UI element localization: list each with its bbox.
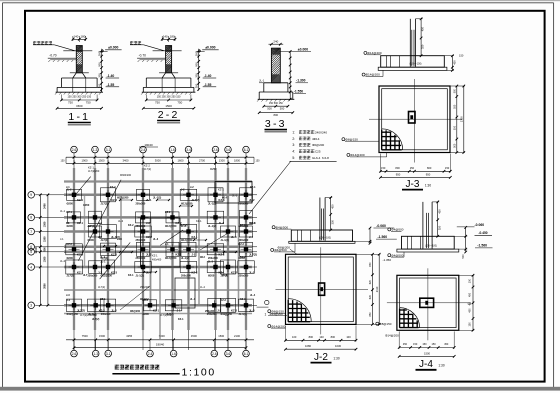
svg-text:Φ8@150: Φ8@150 [379,322,391,326]
bottom axis bubble 3-6 [227,341,229,351]
plan footing at 246,249 [240,242,253,256]
J-2 plan right overall dim [378,254,380,324]
J-3 bottom dim row 1 [381,170,451,172]
svg-text:KZ-1: KZ-1 [218,188,224,192]
svg-text:200: 200 [97,73,101,78]
svg-text:1500: 1500 [165,104,172,108]
plan footing at 246,232 [240,226,253,237]
plan big footing rect mid right [175,278,195,308]
svg-text:1600: 1600 [178,159,184,163]
svg-text:KZ-3: KZ-3 [250,222,256,225]
svg-text:150: 150 [432,343,437,346]
foundation beam along axis A [64,194,252,197]
left axis bubble 6 [28,244,35,251]
svg-text:Φ12@150: Φ12@150 [165,225,177,228]
svg-text:900: 900 [195,62,199,67]
svg-text:350: 350 [421,44,425,49]
J-4 plan center column [420,298,434,307]
plan footing at 143,217 [136,212,151,223]
svg-text:±0.000: ±0.000 [205,45,215,49]
svg-text:Φ250: Φ250 [210,168,217,171]
svg-text:-0.060: -0.060 [376,224,386,228]
svg-text:250x300: 250x300 [136,225,146,228]
foundation beam along axis 2 [94,168,96,330]
svg-text:J-3: J-3 [406,179,420,190]
J-4 section left label 2 [388,254,391,257]
plan footing at 74,267 [66,260,83,274]
svg-text:150: 150 [469,278,472,283]
bottom axis bubble 1-6 [173,341,175,351]
J-2 bottom dim row 1 [286,339,357,341]
svg-text:950: 950 [426,172,431,176]
svg-text:500: 500 [462,254,465,259]
detail section 3-3 column [271,48,280,83]
svg-text:750: 750 [68,100,73,104]
plan footing at 74,305 [67,299,82,312]
svg-text:1:30: 1:30 [425,183,431,187]
svg-text:3800: 3800 [44,283,47,289]
svg-text:J-4: J-4 [249,235,253,239]
svg-text:350: 350 [437,225,441,230]
svg-text:2-6: 2-6 [212,352,217,356]
foundation beam along axis 5 [171,168,173,330]
3-3 top dim [269,43,284,45]
svg-text:-1.300: -1.300 [296,79,306,83]
plan right small circle note [265,300,269,304]
svg-text:3: 3 [30,304,32,308]
svg-text:J-4: J-4 [87,225,91,228]
J-3 plan centerlines [414,79,416,163]
J-2 section left label 1 [272,226,275,229]
svg-text:KZ-2: KZ-2 [220,299,226,302]
svg-text:(100—100): (100—100) [319,237,331,240]
svg-text:KZ-1: KZ-1 [240,224,246,227]
svg-text:250x300: 250x300 [136,257,146,260]
plan footing at 172,217 [166,212,179,223]
svg-text:450: 450 [421,26,425,31]
svg-text:J-1: J-1 [177,309,181,313]
bottom axis bubble 2-4 [149,341,151,351]
svg-text:1500: 1500 [99,159,105,163]
plan footing at 108,232 [100,225,117,239]
svg-text:200: 200 [195,73,199,78]
svg-text:Φ200: Φ200 [67,225,74,228]
svg-text:3:: 3: [292,143,295,147]
svg-text:1:30: 1:30 [333,356,339,360]
J-4 plan rebar fan corner [400,308,420,328]
plan footing at 216,195 [208,188,223,202]
J-3 plan left label 2 [347,153,350,156]
bottom axis bubble 3-1 [107,341,109,351]
top axis bubble 2-6 [212,146,219,153]
J-2 plan right dim chain [372,254,374,324]
svg-text:800: 800 [395,166,400,170]
svg-text:Φ12: Φ12 [200,256,205,259]
svg-text:150: 150 [61,160,66,163]
svg-text:KZ-1: KZ-1 [88,166,94,170]
top axis bubble 2-4 [140,146,147,153]
svg-text:JL-3: JL-3 [153,238,159,241]
plan extra beam segments [64,180,252,182]
svg-text:2-6: 2-6 [72,352,77,356]
J-3 section column [409,19,411,67]
section detail 2-2 column hatched [166,46,172,73]
svg-text:J-2: J-2 [181,188,185,191]
J-3 section slab [381,56,445,67]
svg-text:KZ-2: KZ-2 [146,235,152,239]
border outer thin frame [0,0,560,2]
svg-text:620: 620 [369,280,372,285]
svg-text:JL7(2): JL7(2) [249,253,257,257]
svg-text:3-4: 3-4 [186,148,191,152]
svg-text:JL7(2)200: JL7(2)200 [160,314,172,317]
svg-text:1080: 1080 [305,344,311,348]
svg-text:11040: 11040 [34,246,38,254]
left axis bubble 7 [28,228,35,235]
top axis bubble 3-6 [225,146,232,153]
svg-text:150: 150 [469,322,472,327]
plan vertical axis line 9 [245,160,247,350]
svg-text:JL-3: JL-3 [219,221,225,225]
plan footing at 143,232 [135,226,152,237]
3-3 footing [264,82,288,84]
svg-text:Φ8@150: Φ8@150 [345,137,358,141]
svg-text:J-2: J-2 [314,352,328,363]
svg-text:Φ200: Φ200 [143,313,150,316]
svg-text:250x300: 250x300 [136,239,146,242]
svg-text:KZ-2: KZ-2 [128,224,134,227]
J-2 plan centerlines [320,247,322,334]
svg-text:1Φ50: 1Φ50 [83,204,90,207]
svg-text:KZ-1: KZ-1 [178,318,184,321]
J-4 section right dim [465,227,467,252]
svg-text:JL7(2)200: JL7(2)200 [88,170,100,173]
svg-text:1:30: 1:30 [438,364,444,368]
svg-text:1500: 1500 [44,221,47,227]
svg-text:1: 1 [265,313,267,317]
section detail 2-2 footing steps [146,77,191,79]
plan vertical axis line 1 [73,160,75,350]
svg-text:2110: 2110 [375,286,379,292]
foundation beam along axis 9 [245,168,247,330]
svg-text:JL7(2): JL7(2) [101,239,109,242]
svg-text:JL-1(2): JL-1(2) [136,275,144,278]
svg-text:Φ4@500: Φ4@500 [391,228,403,232]
svg-text:1500: 1500 [99,334,105,338]
svg-text:KZ-3: KZ-3 [240,298,246,301]
plan footing at 108,249 [101,243,116,256]
svg-text:900: 900 [97,62,101,67]
svg-text:KZ-2: KZ-2 [192,270,198,274]
svg-text:JL-4: JL-4 [250,294,256,297]
svg-text:J-3: J-3 [66,294,70,297]
section detail 2-2 column flare [162,73,166,78]
svg-text:300: 300 [97,83,101,88]
section detail 1-1 footing steps [62,77,98,79]
plan footing at 214,305 [208,298,221,312]
plan footing at 95,217 [89,211,102,224]
plan footing at 143,195 [137,189,150,200]
left axis bubble 4 [28,264,35,271]
svg-text:Φ: Φ [468,302,472,307]
section detail 1-1 right dim chain [101,49,103,91]
svg-text:KZ-2: KZ-2 [231,309,237,313]
plan footing at 74,217 [68,212,81,223]
svg-text:800: 800 [331,335,336,339]
svg-text:750: 750 [177,100,182,104]
svg-text:KZ-1: KZ-1 [153,309,159,313]
section detail 1-1 leader note text [33,41,52,44]
svg-text:J-1: J-1 [60,237,64,241]
svg-text:100: 100 [346,335,351,339]
bottom gray bar [0,387,560,391]
svg-text:2100: 2100 [459,116,463,122]
svg-text:500: 500 [280,107,285,111]
svg-text:450: 450 [452,60,456,65]
foundation beam along axis 4 [142,168,144,330]
left axis bubble 8 [28,214,35,221]
plan vertical axis line 7 [215,160,217,350]
svg-text:±0.000: ±0.000 [108,45,118,49]
svg-text:150 250 300 250 150: 150 250 300 250 150 [157,96,181,99]
J-2 section slab [291,230,352,241]
svg-text:450: 450 [469,308,472,313]
svg-text:450: 450 [330,204,334,209]
J-2 section left label 2 [271,248,274,251]
svg-text:JL-1: JL-1 [249,270,255,274]
svg-text:2400: 2400 [44,203,47,209]
svg-text:-1.550: -1.550 [294,90,304,94]
svg-text:500: 500 [453,143,456,148]
svg-text:450: 450 [403,343,408,346]
svg-text:KZ-2: KZ-2 [238,243,244,246]
svg-text:-0.70: -0.70 [49,54,56,58]
plan footing at 246,217 [240,210,253,224]
svg-text:3-1: 3-1 [106,352,111,356]
svg-text:KZ-3: KZ-3 [111,270,117,274]
plan footing at 228,232 [221,226,236,237]
plan footing at 172,249 [166,242,179,256]
plan footing at 188,195 [180,189,197,200]
svg-text:100: 100 [292,335,297,339]
svg-text:-1.55: -1.55 [204,83,212,87]
svg-text:Φ200: Φ200 [67,257,74,260]
foundation beam along axis 3 [107,168,109,330]
svg-text:150: 150 [422,343,427,346]
svg-text:JL7(2): JL7(2) [92,318,100,321]
svg-text:Φ14@200: Φ14@200 [350,153,364,157]
plan horizontal axis line D [35,246,257,248]
section detail 1-1 column hatched [76,46,82,73]
svg-text:3-3: 3-3 [265,118,287,130]
J-2 section column [319,198,321,241]
bottom axis bubble 1-3 [95,341,97,351]
plan footing at 174,305 [165,300,182,311]
svg-text:800: 800 [274,113,279,117]
plan footing at 96,305 [88,299,105,312]
svg-text:200x300: 200x300 [208,257,218,260]
svg-text:6-1: 6-1 [244,148,249,152]
svg-text:4Φ14: 4Φ14 [312,137,320,141]
svg-text:5:: 5: [292,156,295,160]
svg-text:GL6-4 6.6-8: GL6-4 6.6-8 [312,156,329,160]
J-2 plan outer square [286,254,357,324]
svg-text:2-4: 2-4 [141,148,146,152]
plan big footing rect top right [215,182,252,204]
svg-text:200x300: 200x300 [239,239,249,242]
svg-text:JL-1(2): JL-1(2) [208,202,216,205]
svg-text:150: 150 [256,160,261,163]
svg-text:9: 9 [30,193,32,197]
3-3 right dim chain [289,52,291,100]
svg-text:JL-1(2): JL-1(2) [221,239,229,242]
plan big footing rect center [141,218,181,267]
svg-text:KZ-2: KZ-2 [144,164,150,168]
svg-text:850: 850 [369,262,372,267]
svg-text:140: 140 [73,35,78,39]
J-4 section cushion layer [397,249,459,252]
svg-text:KZ-2: KZ-2 [110,186,116,189]
svg-text:JL-2: JL-2 [60,259,66,263]
plan vertical axis line 6 [188,160,190,350]
J-3 section left label 1 [364,51,367,54]
section detail 1-1 ground ref line [63,50,92,52]
svg-text:Φ14@200: Φ14@200 [366,73,380,77]
svg-text:240X240: 240X240 [315,130,327,134]
svg-text:4:: 4: [292,150,295,154]
svg-text:8Φ: 8Φ [66,222,69,225]
svg-text:750: 750 [155,100,160,104]
svg-text:3-6: 3-6 [226,148,231,152]
svg-text:Φ200: Φ200 [67,202,74,205]
legend underline rule [289,161,336,163]
plan horizontal axis line B [35,216,257,218]
svg-text:500: 500 [44,247,47,252]
svg-text:KZ-1: KZ-1 [77,198,83,202]
svg-text:-1.40: -1.40 [107,74,115,78]
svg-text:150 250 300 250 150: 150 250 300 250 150 [67,96,91,99]
svg-text:JL7(2): JL7(2) [101,202,109,205]
plan footing at 228,305 [221,298,236,312]
J-2 plan rebar fan corner [288,299,311,322]
J-4 plan inner square [400,278,457,328]
svg-text:J-2: J-2 [146,221,150,225]
svg-text:Φ14@200: Φ14@200 [367,51,381,55]
svg-text:KZ-1: KZ-1 [250,186,256,189]
svg-text:240: 240 [273,39,278,43]
svg-text:500: 500 [267,107,272,111]
svg-text:150: 150 [459,54,464,58]
svg-text:140: 140 [319,335,324,339]
svg-text:-0.060: -0.060 [475,223,485,227]
section detail 2-2 ground ref line [153,50,182,52]
plan horizontal axis line F [35,266,257,268]
svg-text:1-1: 1-1 [68,111,90,123]
J-4 section column [422,202,424,249]
J-2 bottom dim row 2 [286,348,357,350]
svg-text:-0.70: -0.70 [139,54,146,58]
top axis bubble 1-6 [169,146,176,153]
left axis bubble 9 [28,192,35,199]
svg-text:JL-1: JL-1 [259,79,265,83]
svg-text:JL-2: JL-2 [111,309,117,313]
svg-text:6-1: 6-1 [244,352,249,356]
plan vertical axis line 3 [107,160,109,350]
svg-text:3-6: 3-6 [226,352,231,356]
svg-text:1-6: 1-6 [170,148,175,152]
svg-text:JL7: JL7 [83,274,88,277]
svg-text:Φ12@150: Φ12@150 [165,257,177,260]
svg-text:4355: 4355 [126,334,132,338]
svg-text:JL-1: JL-1 [146,198,152,202]
svg-text:-1.55: -1.55 [107,83,115,87]
svg-text:2-6: 2-6 [213,148,218,152]
svg-text:3400: 3400 [123,159,129,163]
svg-text:Φ14@200: Φ14@200 [270,312,284,316]
J-3 plan rebar fan corner [382,129,403,150]
section detail 2-2 right dim chain [198,49,200,91]
top axis bubble 3-4 [185,146,192,153]
J-4 plan centerlines [427,268,429,340]
svg-text:150: 150 [413,343,418,346]
foundation beam along axis 1 [73,168,75,330]
svg-text:JL-1: JL-1 [100,261,106,264]
svg-text:150: 150 [445,166,450,170]
svg-text:Φ12@150: Φ12@150 [181,239,193,242]
svg-text:1500: 1500 [218,334,224,338]
plan vertical axis line 8 [227,160,229,350]
svg-text:950: 950 [396,172,401,176]
svg-text:180: 180 [80,35,85,39]
svg-text:KZ-1: KZ-1 [196,219,202,223]
plan diagonal leaders [249,161,291,214]
J-3 plan inner square [382,89,448,150]
svg-text:JL-1(2): JL-1(2) [181,257,189,260]
svg-text:JL7(2): JL7(2) [180,224,188,227]
section detail 1-1 column flare [73,73,77,78]
plan footing at 74,249 [66,244,83,255]
J-3 section right dims [451,56,453,71]
foundation beam along axis E [64,251,252,254]
svg-text:JL-2: JL-2 [208,261,214,264]
svg-text:500: 500 [97,51,101,56]
svg-text:19040: 19040 [156,343,165,347]
plan horizontal axis line A [35,194,257,196]
foundation beam along axis B [64,216,252,219]
plan mini dim marks [120,199,132,201]
plan title [115,365,160,370]
svg-text:250x300: 250x300 [239,275,249,278]
J-3 plan left label 1 [342,138,345,141]
svg-text:JL7(2)200x300: JL7(2)200x300 [80,314,97,317]
svg-text:1500: 1500 [44,256,47,262]
svg-text:150: 150 [410,166,415,170]
svg-text:350: 350 [330,219,334,224]
section detail 2-2 leader note text [130,41,141,44]
foundation beam along axis 6 [187,168,189,330]
svg-text:5: 5 [30,250,32,254]
left axis bubble 3 [28,302,35,309]
plan vertical axis line 2 [94,160,96,350]
svg-text:Φ8@200: Φ8@200 [130,310,141,313]
svg-text:JL-1: JL-1 [100,256,106,259]
svg-text:1500: 1500 [424,351,430,355]
svg-text:1-6: 1-6 [171,352,176,356]
svg-text:KZ-1: KZ-1 [66,211,72,214]
svg-text:J-1: J-1 [165,243,169,246]
svg-text:250x300: 250x300 [207,313,217,316]
svg-text:800: 800 [309,335,314,339]
